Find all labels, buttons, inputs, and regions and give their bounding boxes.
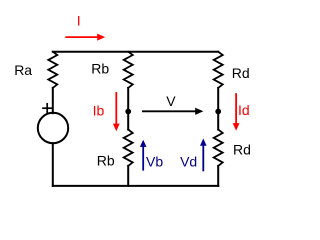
voltage source V1 <box>38 113 68 143</box>
svg-text:Vd: Vd <box>180 154 197 170</box>
arrow V (node B to node D) <box>142 108 203 115</box>
svg-text:Ib: Ib <box>93 102 105 118</box>
svg-text:Id: Id <box>238 102 250 118</box>
wire node D to Rd bottom <box>217 112 219 130</box>
svg-text:V: V <box>166 93 176 109</box>
arrow I (current into bridge) <box>65 34 105 41</box>
wire Rd bottom to bottom wire <box>217 166 219 186</box>
svg-text:Rb: Rb <box>97 153 115 169</box>
resistor Rb bottom <box>124 130 133 166</box>
resistor Rd bottom <box>214 130 223 166</box>
wire Rd top to node D <box>217 88 219 112</box>
resistor Rd top <box>214 52 223 88</box>
arrow Id (current down Rd branch) <box>233 93 240 131</box>
arrow Vd (voltage across Rd bottom) <box>200 139 207 172</box>
svg-text:I: I <box>77 13 81 29</box>
wire top (node A to node C) <box>53 51 218 53</box>
wire node B to Rb bottom <box>127 112 129 130</box>
node D junction dot <box>215 109 221 115</box>
wire Ra to source positive terminal <box>52 88 54 113</box>
svg-text:Rd: Rd <box>233 142 251 158</box>
resistor Rb top <box>124 52 133 88</box>
wire bottom (ground return) <box>53 185 218 187</box>
svg-text:Rd: Rd <box>232 65 250 81</box>
arrow Vb (voltage across Rb bottom) <box>140 140 147 171</box>
node B junction dot <box>125 109 131 115</box>
resistor Ra <box>48 52 57 88</box>
svg-text:Vb: Vb <box>146 154 163 170</box>
arrow Ib (current down Rb branch) <box>113 92 120 131</box>
wire Rb top to node B <box>127 88 129 112</box>
polarity plus sign <box>43 104 51 113</box>
svg-text:Ra: Ra <box>14 62 32 78</box>
svg-text:Rb: Rb <box>91 60 109 76</box>
wire source negative terminal to bottom <box>52 143 54 186</box>
wire Rb bottom to bottom wire <box>127 166 129 186</box>
